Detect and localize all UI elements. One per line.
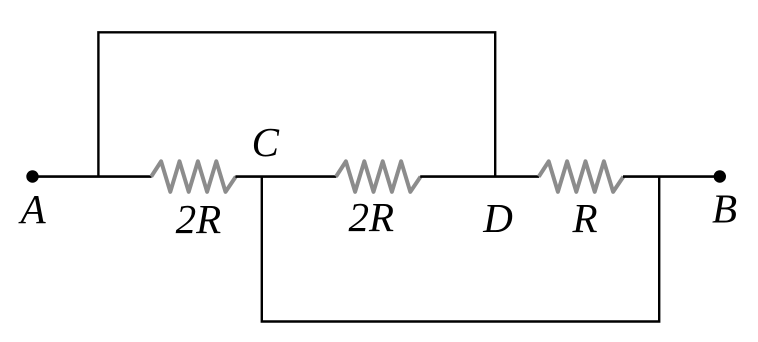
wire A to resistor 2R (left segment of main wire) bbox=[33, 175, 152, 178]
svg-text:C: C bbox=[252, 119, 280, 165]
svg-text:B: B bbox=[712, 186, 737, 232]
resistor R bbox=[539, 161, 624, 192]
wire resistor 2R(second) to resistor R through node D bbox=[420, 175, 539, 178]
wire resistor R to node B bbox=[623, 175, 720, 178]
wire resistor 2R(first) to resistor 2R(second) through node C bbox=[235, 175, 336, 178]
resistor 2R (first) bbox=[151, 161, 236, 192]
svg-text:2R: 2R bbox=[349, 194, 395, 240]
node A terminal dot bbox=[26, 170, 38, 182]
wire bottom branch (bypass from node C to node before B) bbox=[262, 177, 659, 322]
svg-text:2R: 2R bbox=[176, 196, 222, 242]
svg-text:D: D bbox=[482, 195, 513, 241]
resistor 2R (second) bbox=[336, 161, 421, 192]
svg-text:R: R bbox=[571, 195, 597, 241]
node B terminal dot bbox=[714, 170, 726, 182]
wire top branch (bypass over 2R and 2R, from left node to node D) bbox=[98, 32, 495, 176]
svg-text:A: A bbox=[18, 186, 47, 232]
